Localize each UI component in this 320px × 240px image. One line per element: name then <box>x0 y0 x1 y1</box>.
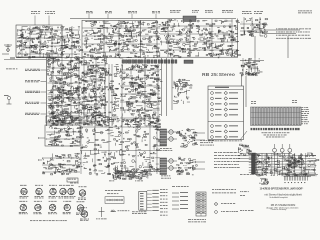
tuning indicator components <box>240 17 268 37</box>
tube socket V11 (EM34) <box>77 205 83 211</box>
connector caption <box>132 211 147 214</box>
tube socket V3 (EF89) <box>50 188 56 194</box>
dial lamp La2 <box>280 148 284 152</box>
switch caption line 3 <box>266 136 285 139</box>
left margin note 1 <box>240 190 249 193</box>
antenna symbol <box>2 44 12 54</box>
tube label above V9 <box>49 200 57 203</box>
voltage note row 0 <box>6 68 17 71</box>
IF demodulator stage components <box>160 19 240 58</box>
trimmer capacitor row <box>122 60 177 63</box>
speaker network 1 <box>176 129 198 148</box>
circle legend symbol <box>215 211 218 214</box>
tube label below V10 <box>63 212 71 214</box>
tube label above V8 <box>34 200 42 203</box>
tube socket V9 (EL84 II) <box>49 204 55 210</box>
switch caption line 2 <box>264 134 287 137</box>
diamond legend text <box>221 202 235 205</box>
tube socket V2 (ECH81) <box>36 188 42 194</box>
measuring point legend box <box>105 197 124 204</box>
tube label below V4 <box>59 196 67 198</box>
IF strip column components <box>47 56 83 126</box>
cable color list <box>160 189 168 216</box>
tube socket V6 (EM80) <box>79 190 85 196</box>
wire input arrow 1 <box>38 138 45 139</box>
wire to ratio detector <box>255 30 300 58</box>
legend box caption <box>208 140 242 143</box>
voltage selector parts <box>260 178 269 185</box>
dial lamp La3 <box>288 148 292 152</box>
note box text <box>68 178 76 181</box>
wire label drops 2 <box>89 14 156 19</box>
mains transformer components <box>113 169 150 179</box>
box AF module lower <box>45 125 80 146</box>
wire speaker leads 1 <box>192 133 205 140</box>
label group mixer <box>86 11 93 13</box>
tape connector bar <box>252 153 256 174</box>
diamond legend symbol <box>214 202 217 205</box>
label group magic eye <box>254 11 263 14</box>
AM-FM IF amplifier components <box>81 57 109 127</box>
voltage note block line1 <box>105 189 123 192</box>
power switch contact comb <box>284 176 309 183</box>
wire legend box feed <box>240 61 264 108</box>
output transformer T2 <box>160 158 177 175</box>
label group AF <box>205 10 213 13</box>
voltage measurement row 3 <box>25 91 40 93</box>
label group FM tuner scale <box>31 11 40 14</box>
wire type legend <box>172 192 188 209</box>
tape connector pins <box>249 155 259 173</box>
output transformer T1 <box>160 129 177 146</box>
circle legend text <box>221 210 238 213</box>
svg-text:RB 25:Stereo: RB 25:Stereo <box>202 72 235 78</box>
tone control stage components <box>46 126 81 146</box>
wire measurement arrow 2 <box>41 81 47 83</box>
voltage measurement row 5 <box>25 113 40 115</box>
wire antenna feed <box>4 58 46 60</box>
switch caption line 1 <box>262 131 290 134</box>
wire mains feed lines <box>238 156 256 162</box>
wire measurement arrow 1 <box>41 69 47 71</box>
tube label above V11 <box>77 200 85 203</box>
wire speaker leads 2 <box>192 162 205 169</box>
tube label above V10 <box>63 200 71 203</box>
chassis legend text <box>96 218 107 221</box>
label group osc <box>105 11 112 13</box>
AF output stage components <box>80 116 161 176</box>
fuse note <box>150 170 161 173</box>
coupling stage components <box>108 64 120 126</box>
table caption <box>188 219 206 222</box>
note box subtext <box>70 182 79 185</box>
note text ratio detector <box>276 29 311 39</box>
bottom wiring note <box>240 173 266 176</box>
tube socket V10 (EZ81) <box>64 204 70 210</box>
switch bank caption bar <box>251 128 300 130</box>
tube label below V3 <box>49 196 58 198</box>
svg-text:mit Stereo-Nachrüstmöglichkeit: mit Stereo-Nachrüstmöglichkeit <box>264 192 302 196</box>
cable connector wires <box>147 190 159 211</box>
ground terminal symbol <box>4 95 12 104</box>
coil symbol legend <box>111 210 117 212</box>
voltage measurement row 1 <box>25 69 40 71</box>
tube label above V7 <box>19 200 27 203</box>
speaker impedance note 1 <box>200 140 214 145</box>
tube socket V1 (EC92) <box>21 188 27 194</box>
wire input arrow 2 <box>38 160 42 161</box>
label group demod <box>192 10 199 13</box>
chassis symbol legend <box>99 207 105 217</box>
wire top section bottom bus <box>16 19 238 58</box>
box FM tuner module <box>16 25 62 57</box>
label group tuning indicator <box>242 11 252 14</box>
tube label above V1 <box>20 184 27 187</box>
tube socket V8 (ECC83) <box>35 204 41 210</box>
chassis area marks <box>161 176 171 179</box>
transformer caption <box>160 148 172 151</box>
note below legend box <box>214 152 240 168</box>
label group AM osc <box>222 10 233 13</box>
svg-text:Printed in Germany: Printed in Germany <box>271 208 287 211</box>
fuse block components <box>287 161 301 169</box>
tube label above V2 <box>35 184 43 187</box>
svg-text:10-KREIS-SPITZENSUPER „MATADOR: 10-KREIS-SPITZENSUPER „MATADOR“ <box>260 187 304 190</box>
tube label below V2 <box>35 196 44 198</box>
volume control stage components <box>42 153 81 175</box>
mains entry components <box>238 144 252 155</box>
tube socket V12 (extra) <box>81 211 87 217</box>
left margin note 3 <box>240 209 254 212</box>
tube label above V6 <box>79 185 87 188</box>
label group IF1 <box>128 11 137 13</box>
selector tick row <box>281 174 318 176</box>
mixer-oscillator stage components <box>82 21 161 59</box>
tube label below V1 <box>20 196 29 198</box>
tube label above V3 <box>49 184 57 187</box>
transformer label right <box>135 180 143 183</box>
ratio detector components <box>120 64 163 127</box>
voltage note block line2 <box>107 192 118 195</box>
tube label below V5 <box>67 196 76 198</box>
wire measurement arrow 5 <box>41 113 47 115</box>
wire legend heading <box>172 185 189 188</box>
tube label above V5 <box>67 184 74 187</box>
speaker network 2 <box>176 157 197 175</box>
wire demod columns <box>162 58 173 116</box>
label group top right corner <box>298 11 312 14</box>
voltage measurement row 4 <box>25 102 39 104</box>
tube sockets caption <box>30 219 67 222</box>
right note lines <box>212 189 236 193</box>
wire measurement arrow 4 <box>41 102 47 104</box>
label group AM scale <box>45 11 55 14</box>
ferrite rod block <box>183 16 196 22</box>
voltage measurement row 2 <box>25 80 40 82</box>
left margin note 2 <box>240 194 245 197</box>
switch row labels <box>302 107 310 124</box>
tube label below V6 <box>78 198 86 200</box>
AF preamp components <box>173 79 193 104</box>
tube socket V7 (EF89 II) <box>20 204 26 210</box>
coil data table <box>196 192 206 216</box>
wire IF bus left <box>46 57 48 126</box>
cable connector box <box>139 191 147 210</box>
wire measurement arrow 3 <box>41 91 47 93</box>
tube label above V12 <box>81 206 88 209</box>
trimmer row right block <box>184 60 193 63</box>
switch top label right <box>292 100 297 103</box>
dial lamp La1 <box>273 148 277 152</box>
tube label above V4 <box>59 184 67 187</box>
tube label below V11 <box>76 213 85 215</box>
mains wiring mesh <box>256 153 319 177</box>
note box tube view <box>67 178 78 182</box>
tube socket V5 (EL84) <box>68 188 74 194</box>
svg-text:Schaltbild komplett: Schaltbild komplett <box>269 196 288 199</box>
transformer label left <box>109 180 114 183</box>
FM tuner stage components <box>16 26 83 58</box>
coil legend text <box>118 209 130 212</box>
tube label below V9 <box>48 212 57 214</box>
tube label below V7 <box>19 212 28 214</box>
box AF module upper <box>46 116 80 123</box>
wire dial lamp feed <box>255 144 292 176</box>
box mixer module <box>82 20 157 58</box>
wire mains diagonal <box>240 131 247 140</box>
AF module upper parts <box>47 116 79 123</box>
label group IF3 <box>170 10 181 13</box>
switch top label left <box>251 101 256 104</box>
tube label below V12 <box>80 219 89 221</box>
label group IF2 <box>152 11 160 13</box>
wire top bus <box>70 18 236 20</box>
wire label drop lines <box>35 16 49 26</box>
tube socket V4 (EABC80) <box>60 188 66 194</box>
connector legend box <box>208 86 244 140</box>
tube label below V8 <box>33 212 41 214</box>
AM-FM switch contacts <box>240 58 263 76</box>
push-button switch bank block <box>251 107 302 126</box>
